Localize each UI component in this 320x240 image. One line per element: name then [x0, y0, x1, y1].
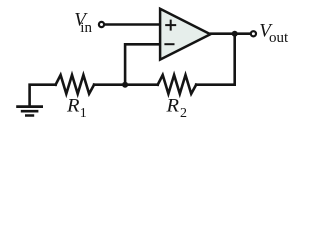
- svg-text:1: 1: [80, 106, 87, 121]
- svg-text:2: 2: [180, 106, 187, 121]
- svg-text:out: out: [269, 30, 289, 46]
- svg-text:in: in: [80, 20, 92, 36]
- svg-text:R: R: [165, 96, 179, 117]
- svg-text:R: R: [66, 96, 80, 117]
